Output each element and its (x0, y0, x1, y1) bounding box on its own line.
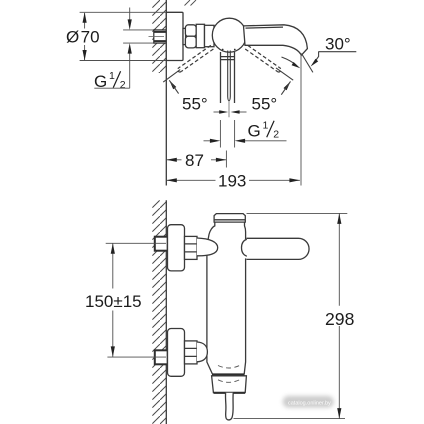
svg-text:298: 298 (325, 309, 355, 329)
svg-text:1: 1 (109, 70, 115, 82)
svg-text:2: 2 (120, 79, 126, 91)
svg-text:2: 2 (273, 128, 279, 140)
svg-text:catalog.onliner.by: catalog.onliner.by (288, 400, 331, 406)
svg-text:193: 193 (218, 171, 246, 190)
svg-text:30°: 30° (325, 34, 351, 53)
svg-text:55°: 55° (252, 95, 278, 114)
svg-text:150±15: 150±15 (85, 292, 142, 311)
svg-text:Ø 70: Ø 70 (66, 28, 100, 47)
svg-text:G: G (248, 122, 261, 141)
svg-text:87: 87 (185, 151, 204, 170)
svg-text:55°: 55° (182, 95, 208, 114)
svg-text:1: 1 (263, 119, 269, 131)
